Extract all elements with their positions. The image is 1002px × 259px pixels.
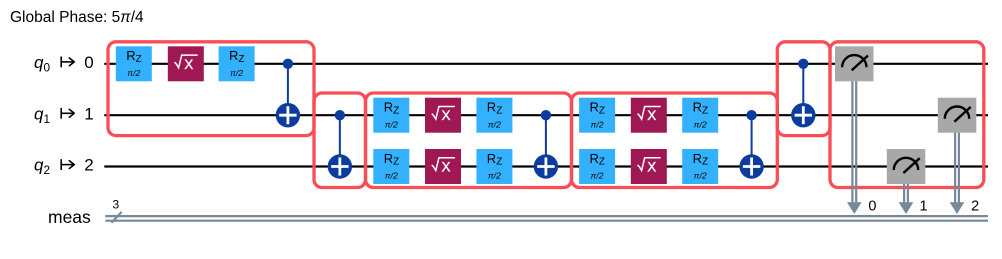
svg-text:X: X xyxy=(184,57,193,72)
svg-text:π/2: π/2 xyxy=(127,68,140,78)
svg-text:X: X xyxy=(441,160,450,175)
svg-text:Global Phase: 5π/4: Global Phase: 5π/4 xyxy=(10,9,144,26)
svg-text:1: 1 xyxy=(919,199,927,215)
svg-text:2: 2 xyxy=(84,156,93,175)
svg-text:π/2: π/2 xyxy=(694,171,707,181)
svg-text:π/2: π/2 xyxy=(488,119,501,129)
svg-text:0: 0 xyxy=(84,53,93,72)
svg-text:π/2: π/2 xyxy=(385,171,398,181)
svg-text:π/2: π/2 xyxy=(591,171,604,181)
svg-text:π/2: π/2 xyxy=(488,171,501,181)
svg-text:π/2: π/2 xyxy=(230,68,243,78)
svg-text:π/2: π/2 xyxy=(694,119,707,129)
svg-text:X: X xyxy=(647,160,656,175)
svg-text:3: 3 xyxy=(113,197,120,211)
svg-text:π/2: π/2 xyxy=(385,119,398,129)
svg-text:π/2: π/2 xyxy=(591,119,604,129)
svg-text:1: 1 xyxy=(84,104,93,123)
svg-text:0: 0 xyxy=(868,199,876,215)
svg-text:X: X xyxy=(647,108,656,123)
svg-text:2: 2 xyxy=(971,199,979,215)
svg-text:X: X xyxy=(441,108,450,123)
svg-text:meas: meas xyxy=(48,207,91,227)
